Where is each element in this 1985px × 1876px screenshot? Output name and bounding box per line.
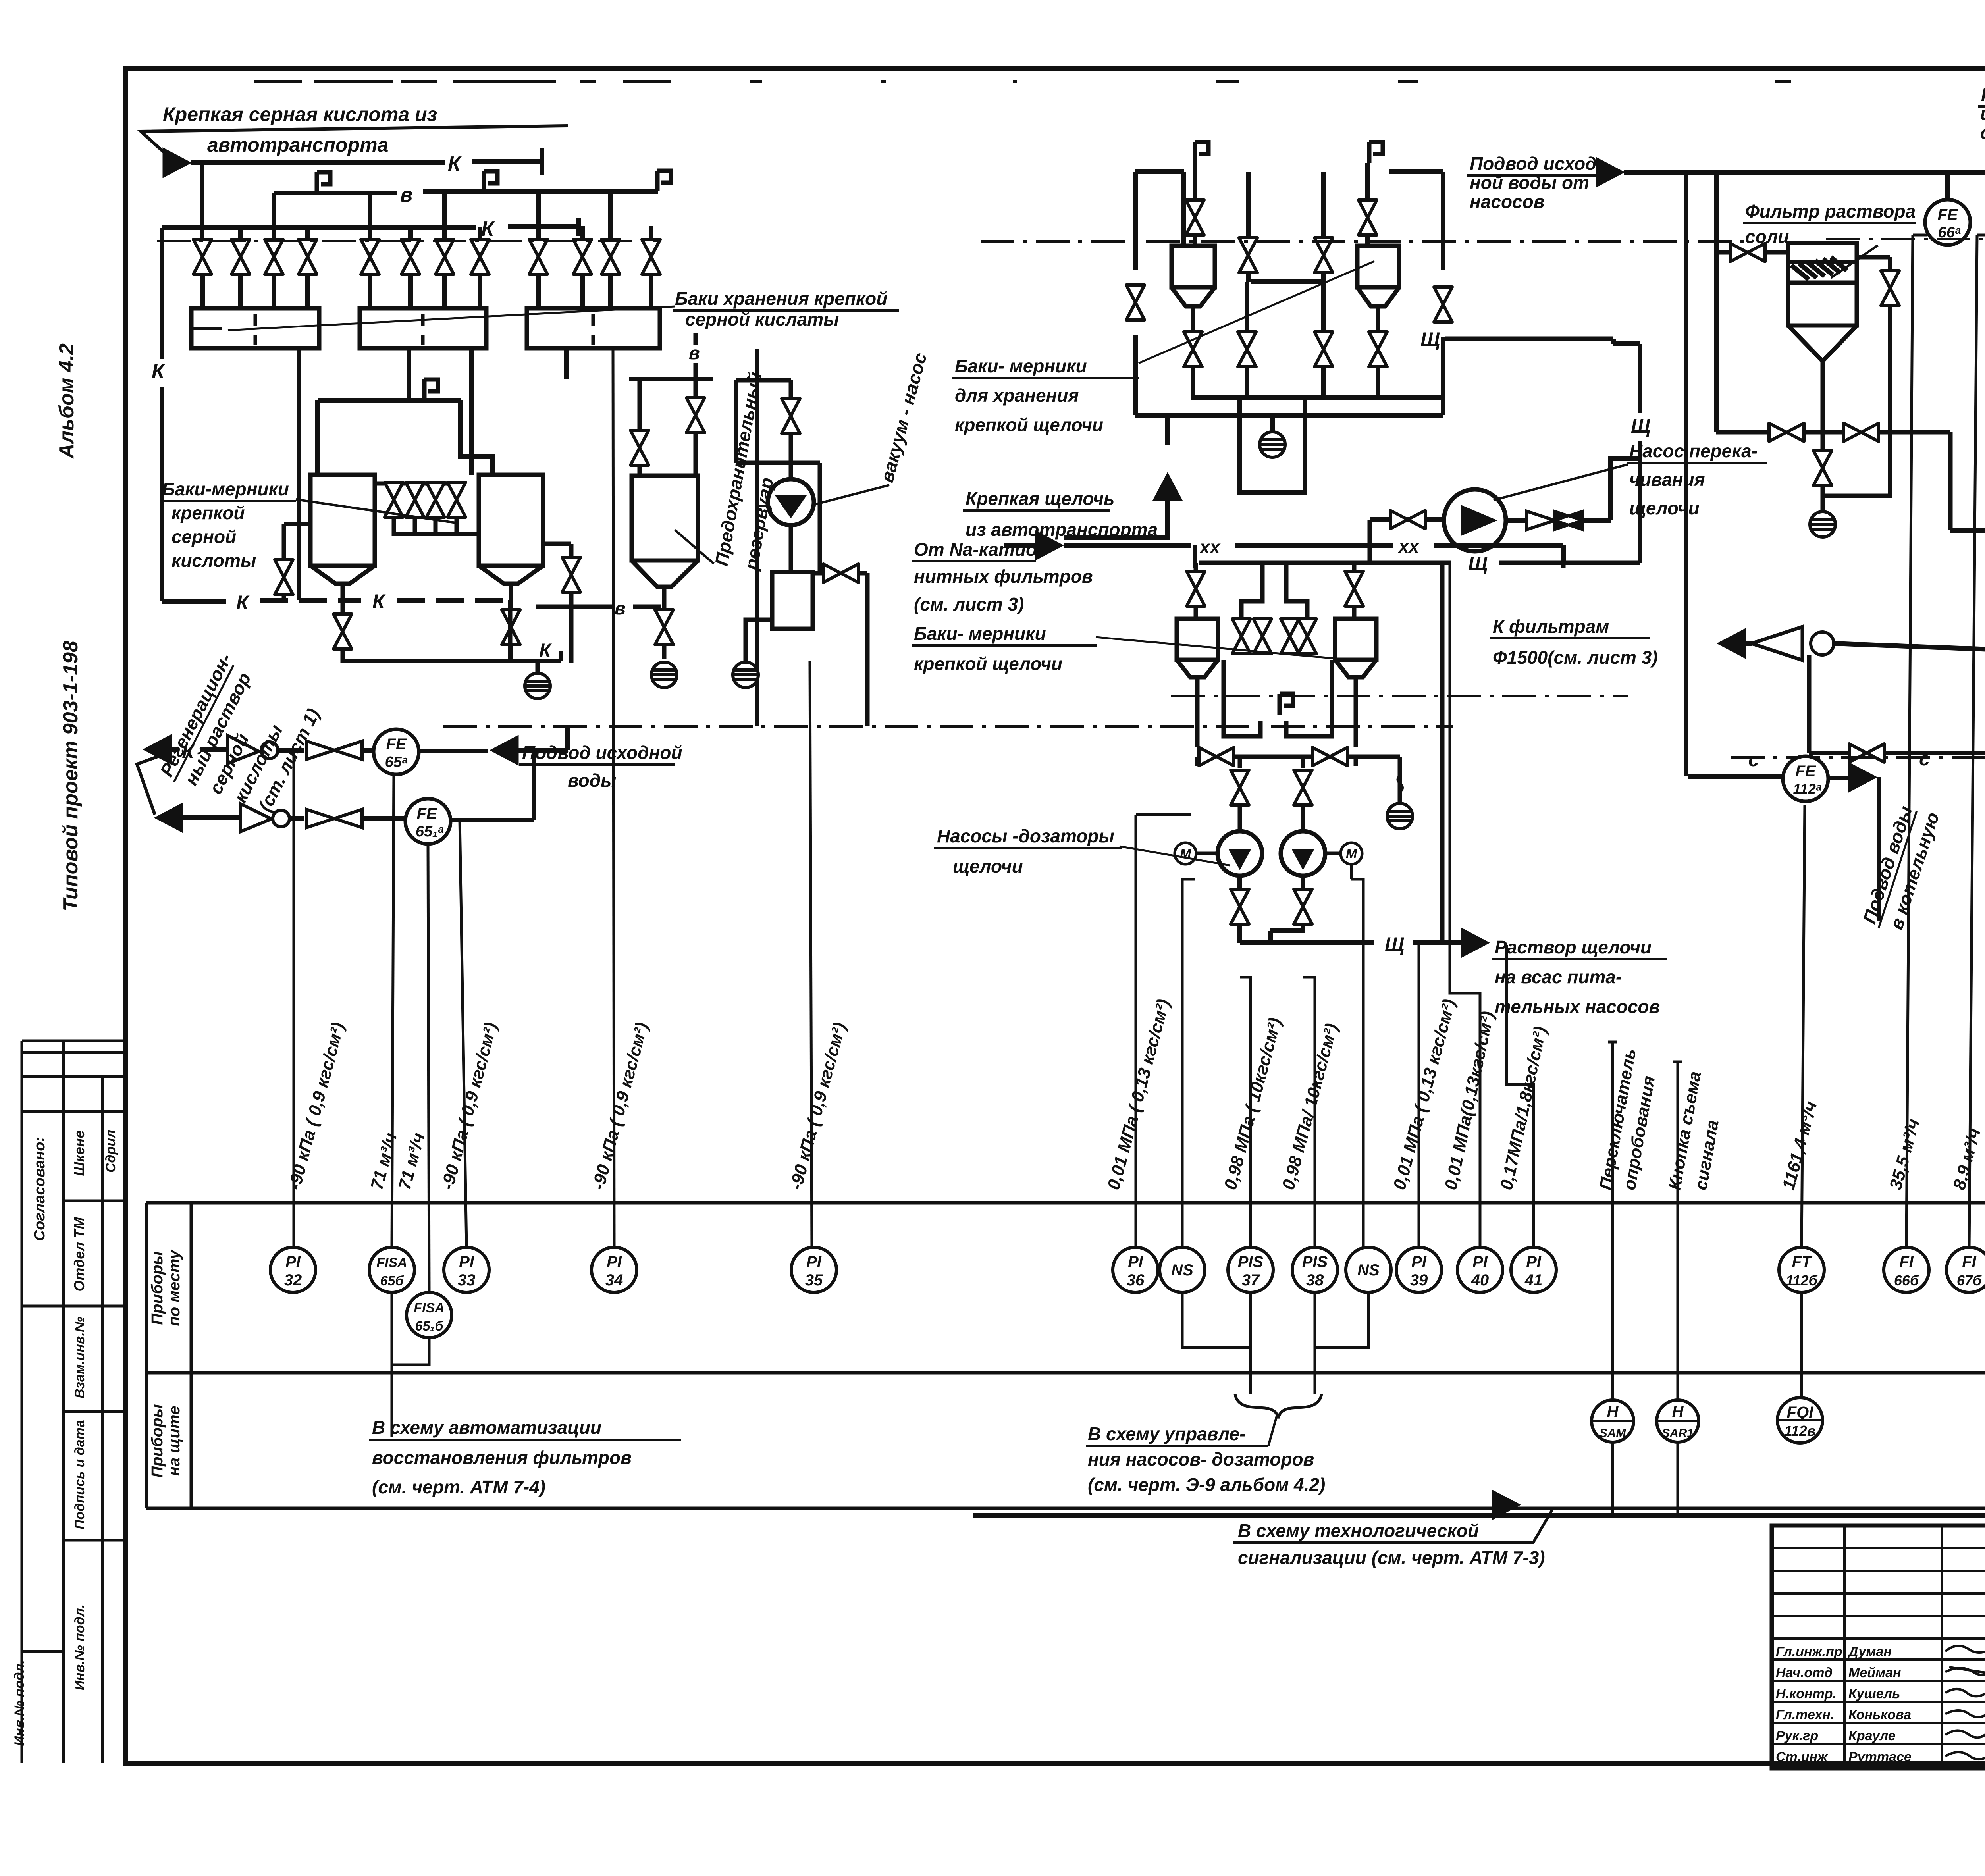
svg-text:соли: соли	[1745, 226, 1789, 247]
valve at 3064,1906	[1199, 747, 1234, 766]
valve at 715,1454	[275, 560, 293, 595]
svg-text:38: 38	[1306, 1271, 1324, 1289]
svg-text:Рук.гр: Рук.гр	[1776, 1728, 1818, 1743]
valve at 1034,647	[401, 239, 420, 274]
storage tanks	[191, 308, 660, 348]
vacuum pump	[768, 479, 814, 525]
svg-text:кислоты: кислоты	[172, 550, 256, 571]
svg-text:FISA: FISA	[414, 1300, 444, 1316]
svg-text:хх: хх	[1199, 537, 1221, 557]
svg-text:Мейман: Мейман	[1848, 1665, 1901, 1680]
svg-text:Насосы -дозаторы: Насосы -дозаторы	[937, 826, 1114, 846]
svg-text:крепкой щелочи: крепкой щелочи	[914, 653, 1062, 674]
valve at 510,647	[193, 239, 212, 274]
drain funnel at 1878,1700	[733, 662, 758, 688]
svg-text:Раствор щелочи: Раствор щелочи	[1495, 937, 1652, 957]
svg-text:37: 37	[1242, 1271, 1260, 1289]
valve at 4688,1089	[1844, 423, 1879, 441]
svg-text:Думан: Думан	[1847, 1644, 1892, 1659]
svg-text:Баки- мерники: Баки- мерники	[955, 356, 1087, 376]
instrument PI 41	[1511, 1247, 1556, 1292]
thin control enclosure lines	[1136, 815, 1351, 879]
underlines and leaders	[160, 106, 1985, 959]
svg-text:Альбом 4.2: Альбом 4.2	[55, 343, 78, 459]
svg-text:В схему автоматизации: В схему автоматизации	[372, 1417, 601, 1438]
Щ line lower	[1199, 561, 1640, 565]
vent flag at 1219,484	[484, 171, 497, 192]
svg-text:Инв.№ подл.: Инв.№ подл.	[72, 1604, 87, 1691]
svg-text:К: К	[152, 360, 166, 383]
svg-text:Инв.№ подл.: Инв.№ подл.	[12, 1660, 27, 1746]
flow arrow at 4325,1621	[1717, 628, 1746, 659]
svg-text:40: 40	[1471, 1271, 1489, 1289]
svg-text:FI: FI	[1962, 1253, 1976, 1271]
svg-text:в: в	[400, 183, 412, 206]
flow element FE 66a	[1925, 200, 1970, 245]
svg-text:Отдел ТМ: Отдел ТМ	[71, 1217, 87, 1291]
svg-text:PI: PI	[1526, 1253, 1542, 1271]
svg-text:Баки- мерники: Баки- мерники	[914, 623, 1046, 644]
valve at 3282,2284	[1294, 889, 1312, 924]
svg-text:по месту: по месту	[166, 1250, 183, 1326]
valve at 3005,880	[1184, 332, 1202, 367]
svg-text:112ᵃ: 112ᵃ	[1793, 781, 1821, 797]
svg-text:NS: NS	[1357, 1262, 1380, 1279]
svg-text:насосов: насосов	[1470, 191, 1545, 212]
svg-text:FISA: FISA	[376, 1255, 407, 1270]
motor M at 2986,2150	[1175, 843, 1196, 864]
vent flag at 3449,410	[1369, 142, 1383, 163]
vent flag at 3010,410	[1195, 142, 1208, 163]
instrument NS 2	[1346, 1247, 1391, 1292]
valve at 4500,1089	[1769, 423, 1804, 441]
svg-text:К: К	[448, 152, 462, 175]
svg-text:65₁б: 65₁б	[415, 1319, 444, 1334]
salt solution filter	[1716, 243, 1950, 530]
valve at 3334,643	[1314, 238, 1333, 273]
dosing pump 1	[1218, 831, 1262, 876]
instruments band box	[146, 1203, 1985, 1525]
C section dash line	[1731, 756, 1985, 759]
rotated labels	[156, 345, 1985, 932]
FE112 flow line	[1688, 774, 1783, 779]
svg-text:Баки хранения крепкой: Баки хранения крепкой	[675, 288, 887, 309]
flow element FE 65-1a	[405, 799, 451, 844]
valve at 3249,1603	[1281, 619, 1299, 654]
svg-text:от насосов: от насосов	[1980, 122, 1985, 143]
svg-text:FE: FE	[1937, 206, 1958, 223]
valve at 3123,1984	[1231, 770, 1249, 805]
instrument PIS 38	[1292, 1247, 1337, 1292]
flow arrow at 4092,434	[1596, 157, 1625, 187]
instrument FISA 65b	[369, 1247, 414, 1292]
alkali storage tanks group (upper)	[1064, 163, 1443, 538]
svg-text:PIS: PIS	[1302, 1253, 1328, 1271]
alkali storage tank A1	[1172, 246, 1215, 287]
svg-text:Приборы: Приборы	[148, 1251, 166, 1325]
svg-text:65ᵃ: 65ᵃ	[385, 754, 408, 770]
valve at 3144,643	[1239, 238, 1257, 273]
valve at 1356,647	[529, 239, 547, 274]
vent flag at 3223,1800	[1280, 694, 1293, 715]
svg-text:PI: PI	[1411, 1253, 1427, 1271]
flow arrow at 482,410	[163, 148, 191, 178]
svg-text:В схему управле-: В схему управле-	[1088, 1423, 1245, 1444]
svg-text:с: с	[1748, 749, 1759, 770]
valve at 3635,767	[1434, 287, 1452, 322]
flow arrow at 360,1888	[143, 734, 172, 765]
valve at 2860,762	[1126, 285, 1145, 320]
svg-text:Н: Н	[1607, 1403, 1619, 1421]
svg-text:FE: FE	[386, 736, 407, 753]
vent flag at 1069,1008	[424, 379, 438, 400]
svg-text:Согласовано:: Согласовано:	[31, 1137, 48, 1241]
vent flag at 798,486	[317, 172, 330, 193]
svg-text:FT: FT	[1792, 1253, 1813, 1271]
instrument NS 1	[1160, 1247, 1205, 1292]
valve at 3471,880	[1369, 332, 1387, 367]
svg-text:К фильтрам: К фильтрам	[1493, 616, 1609, 637]
svg-text:FQI: FQI	[1787, 1404, 1814, 1421]
acid measuring tank M1	[310, 475, 375, 566]
svg-text:FE: FE	[416, 805, 437, 822]
acid measuring tank M2	[479, 475, 543, 566]
valve at 4591,1179	[1813, 451, 1832, 485]
svg-text:65б: 65б	[380, 1273, 404, 1289]
svg-text:112в: 112в	[1784, 1423, 1815, 1439]
svg-text:К: К	[539, 640, 552, 661]
measuring tanks M1 M2 (acid)	[284, 475, 571, 673]
svg-text:серной кислаты: серной кислаты	[685, 309, 839, 329]
svg-text:К: К	[236, 591, 250, 614]
acid storage tank 2	[360, 308, 486, 348]
svg-text:PI: PI	[1128, 1253, 1143, 1271]
valve at 3123,2284	[1231, 889, 1249, 924]
svg-text:Ф1500(см. лист 3): Ф1500(см. лист 3)	[1493, 647, 1658, 668]
svg-text:В схему технологической: В схему технологической	[1238, 1520, 1479, 1541]
svg-text:Щ: Щ	[1385, 933, 1404, 955]
instrument FQI 112v	[1777, 1398, 1823, 1443]
svg-text:36: 36	[1127, 1271, 1145, 1289]
valve at 1120,647	[436, 239, 454, 274]
svg-text:От Nа-катио-: От Nа-катио-	[914, 539, 1043, 560]
instrument PIS 37	[1228, 1247, 1273, 1292]
valve at 1287,1580	[502, 610, 520, 645]
flow arrow at 2941,1190	[1152, 472, 1183, 501]
lines from tanks down	[299, 349, 567, 600]
svg-text:воды: воды	[568, 770, 616, 791]
svg-text:Подвод исходной: Подвод исходной	[522, 742, 682, 763]
svg-text:Щ: Щ	[1631, 415, 1650, 437]
instrument FT 112b	[1779, 1247, 1824, 1292]
valve at 1673,1580	[655, 610, 673, 645]
drain funnel at 1354,1728	[525, 673, 550, 699]
valve at 3445,548	[1359, 200, 1377, 235]
svg-text:с: с	[1919, 749, 1930, 770]
svg-text:на всас пита-: на всас пита-	[1495, 967, 1622, 987]
svg-text:33: 33	[458, 1271, 476, 1289]
svg-text:крепкой: крепкой	[172, 503, 245, 523]
svg-text:К: К	[481, 218, 495, 241]
instrument FI 66b	[1884, 1247, 1929, 1292]
svg-text:нитных фильтров: нитных фильтров	[914, 566, 1093, 587]
valve at 1439,1448	[562, 557, 580, 592]
svg-text:39: 39	[1410, 1271, 1428, 1289]
svg-text:Подвод исход-: Подвод исход-	[1470, 153, 1603, 174]
signatures squiggles	[1945, 1639, 1985, 1759]
valve at 1611,1128	[630, 430, 649, 465]
flow arrow at 2679,1374	[1035, 530, 1064, 560]
svg-text:Сдрил: Сдрил	[103, 1130, 118, 1173]
svg-text:Взам.инв.№: Взам.инв.№	[72, 1317, 87, 1398]
svg-text:крепкой щелочи: крепкой щелочи	[955, 414, 1103, 435]
svg-text:PI: PI	[806, 1253, 822, 1271]
valve at 606,647	[231, 239, 250, 274]
svg-text:в: в	[689, 343, 700, 363]
valve at 3127,1603	[1232, 619, 1251, 654]
svg-text:из автотранспорта: из автотранспорта	[966, 519, 1158, 540]
alkali storage tank A2	[1357, 246, 1399, 287]
svg-text:на щите: на щите	[166, 1406, 183, 1476]
export to filters f3000	[1950, 528, 1985, 533]
svg-text:К: К	[372, 590, 386, 612]
valve at 3293,1603	[1298, 619, 1316, 654]
instrument PI 33	[444, 1247, 489, 1292]
svg-text:(см. лист 3): (см. лист 3)	[914, 594, 1024, 614]
instrument PI 32	[270, 1247, 316, 1292]
valve at 4761,726	[1881, 271, 1899, 306]
right side dash-dot	[981, 240, 1745, 243]
svg-text:Гл.инж.пр: Гл.инж.пр	[1776, 1644, 1842, 1659]
svg-text:щелочи: щелочи	[1629, 498, 1700, 518]
valve at 1097,1259	[426, 482, 445, 517]
svg-text:Н.контр.: Н.контр.	[1776, 1686, 1837, 1701]
svg-text:41: 41	[1524, 1271, 1543, 1289]
svg-text:хх: хх	[1397, 536, 1420, 557]
svg-text:Кушель: Кушель	[1848, 1686, 1900, 1701]
svg-text:Фильтр раствора: Фильтр раствора	[1745, 201, 1916, 221]
acid storage tank 3	[527, 308, 660, 348]
valve at 1209,647	[471, 239, 489, 274]
dashed K line	[162, 599, 226, 604]
alkali transfer pump	[1444, 489, 1506, 551]
valve at 4702,1897	[1849, 744, 1884, 762]
svg-text:34: 34	[605, 1271, 623, 1289]
valve at 3334,880	[1314, 332, 1333, 367]
flow element FE 65a	[374, 729, 419, 774]
rotated value labels above band	[285, 997, 1985, 1192]
svg-text:65₁ᵃ: 65₁ᵃ	[416, 823, 444, 840]
svg-text:35: 35	[805, 1271, 823, 1289]
svg-text:Конькова: Конькова	[1848, 1707, 1911, 1722]
valve at 1752,1046	[686, 398, 705, 433]
instrument PI 40	[1457, 1247, 1503, 1292]
svg-text:PI: PI	[1472, 1253, 1488, 1271]
flow arrow at 389,2060	[154, 803, 183, 833]
switch H SAM	[1592, 1400, 1634, 1442]
valve at 3141,880	[1238, 332, 1256, 367]
valve at 1640,647	[642, 239, 660, 274]
valve at 3282,1984	[1294, 770, 1312, 805]
svg-text:Крауле: Крауле	[1848, 1728, 1896, 1743]
valve at 775,647	[299, 239, 317, 274]
svg-text:ния насосов- дозаторов: ния насосов- дозаторов	[1088, 1449, 1314, 1470]
svg-text:Руттасе: Руттасе	[1848, 1749, 1912, 1764]
drain funnel at 3205,1120	[1260, 432, 1285, 457]
svg-text:в: в	[615, 598, 626, 618]
instrument PI 39	[1396, 1247, 1442, 1292]
alkali measuring tanks (lower)	[1177, 545, 1400, 832]
alkali measuring tank B1	[1177, 619, 1218, 660]
salt solution filter vessel	[1788, 243, 1857, 326]
svg-text:восстановления фильтров: восстановления фильтров	[372, 1447, 632, 1468]
instrument FI 67b	[1946, 1247, 1985, 1292]
brace under PIS37/38	[1235, 1394, 1322, 1418]
svg-text:(см. черт. АТМ 7-4): (см. черт. АТМ 7-4)	[372, 1477, 545, 1497]
valve at 863,1591	[333, 614, 352, 649]
motor M at 3404,2150	[1341, 843, 1362, 864]
svg-text:PI: PI	[607, 1253, 622, 1271]
flow arrow at 3752,2375	[1461, 928, 1490, 958]
instrument connection lines	[294, 143, 1985, 1515]
valve at 1045,1259	[406, 482, 424, 517]
drain funnel at 4591,1321	[1810, 512, 1835, 537]
svg-text:SAR1: SAR1	[1662, 1427, 1694, 1440]
svg-text:Подвод: Подвод	[1981, 84, 1985, 105]
main text labels	[163, 103, 437, 156]
svg-text:Нач.отд: Нач.отд	[1776, 1665, 1833, 1680]
svg-text:щелочи: щелочи	[953, 856, 1023, 876]
svg-text:Щ: Щ	[1420, 328, 1440, 351]
valve at 690,647	[265, 239, 283, 274]
svg-text:Типовой проект 903-1-198: Типовой проект 903-1-198	[59, 641, 82, 911]
svg-text:чивания: чивания	[1629, 469, 1705, 490]
svg-text:PIS: PIS	[1238, 1253, 1264, 1271]
acid storage tank 1	[191, 308, 319, 348]
acid unloading header with flag arrow	[141, 126, 568, 159]
svg-text:для хранения: для хранения	[955, 385, 1079, 406]
valve at 1150,1259	[447, 482, 466, 517]
valve at 3350,1906	[1312, 747, 1347, 766]
instrument PI 35	[791, 1247, 836, 1292]
valve at 992,1259	[385, 482, 403, 517]
svg-text:Щ: Щ	[1468, 553, 1488, 575]
safety reservoir	[536, 333, 757, 726]
svg-text:тельных насосов: тельных насосов	[1495, 996, 1660, 1017]
valve at 3010,548	[1186, 200, 1204, 235]
valve at 3546,1309	[1390, 510, 1425, 529]
svg-text:Шкене: Шкене	[71, 1130, 87, 1176]
svg-text:PI: PI	[459, 1253, 474, 1271]
svg-text:Подпись и дата: Подпись и дата	[72, 1420, 87, 1529]
svg-text:SAM: SAM	[1600, 1427, 1627, 1440]
valve at 932,647	[361, 239, 379, 274]
drain funnel at 1673,1700	[651, 662, 677, 688]
svg-text:Ст.инж: Ст.инж	[1776, 1749, 1828, 1764]
safety reservoir vessel	[632, 476, 698, 560]
svg-text:Баки-мерники: Баки-мерники	[162, 479, 289, 499]
valve at 3012,1483	[1187, 571, 1205, 606]
svg-text:FI: FI	[1899, 1253, 1914, 1271]
svg-text:66б: 66б	[1894, 1272, 1919, 1289]
svg-text:Н: Н	[1672, 1403, 1684, 1421]
svg-text:NS: NS	[1171, 1262, 1193, 1279]
svg-text:(см. черт. Э-9 альбом 4.2): (см. черт. Э-9 альбом 4.2)	[1088, 1474, 1325, 1495]
left attachment stamp table	[22, 1041, 125, 1763]
svg-text:FE: FE	[1795, 763, 1816, 780]
valve at 3411,1483	[1345, 571, 1363, 606]
svg-text:32: 32	[284, 1271, 302, 1289]
instrument FISA 65-1b	[407, 1292, 452, 1338]
svg-text:сигнализации (см. черт. АТМ 7: сигнализации (см. черт. АТМ 7-3)	[1238, 1547, 1545, 1568]
vent flag at 1656,482	[657, 171, 671, 191]
svg-text:PI: PI	[285, 1253, 301, 1271]
svg-text:Крепкая серная кислота из: Крепкая серная кислота из	[163, 103, 437, 125]
Щ line from storage to transfer pump	[1445, 337, 1613, 341]
svg-text:автотранспорта: автотранспорта	[207, 134, 388, 156]
svg-text:серной: серной	[172, 526, 236, 547]
svg-text:112б: 112б	[1786, 1272, 1818, 1289]
dash-dot section lines	[157, 240, 661, 242]
dosing pump 2	[1281, 831, 1325, 876]
instrument circles row	[270, 1247, 1985, 1443]
svg-text:Крепкая щелочь: Крепкая щелочь	[966, 488, 1114, 509]
valve at 2118,1444	[823, 564, 858, 582]
valve at 3180,1603	[1253, 619, 1272, 654]
valve at 4402,636	[1730, 243, 1765, 262]
button H SAR1	[1657, 1400, 1699, 1442]
flow arrow at 3830,3791	[1492, 1490, 1521, 1520]
flow arrow at 1234,1890	[490, 735, 518, 765]
bypass under export lines	[1809, 654, 1985, 753]
valve at 1992,1048	[782, 399, 800, 433]
svg-text:67б: 67б	[1957, 1272, 1982, 1289]
flow element FE 112a	[1783, 756, 1828, 801]
valve at 1467,647	[573, 239, 592, 274]
svg-text:Насос перека-: Насос перека-	[1629, 441, 1758, 461]
svg-text:Гл.техн.: Гл.техн.	[1776, 1707, 1834, 1722]
svg-text:Приборы: Приборы	[148, 1404, 166, 1477]
instrument PI 34	[592, 1247, 637, 1292]
valve at 1538,647	[601, 239, 620, 274]
instrument PI 36	[1113, 1247, 1158, 1292]
vacuum pump	[736, 380, 867, 726]
alkali measuring tank B2	[1335, 619, 1376, 660]
title block	[1772, 1525, 1985, 1768]
drain funnel at 3526,2056	[1387, 803, 1413, 829]
flow arrow at 4728,1958	[1848, 762, 1877, 792]
